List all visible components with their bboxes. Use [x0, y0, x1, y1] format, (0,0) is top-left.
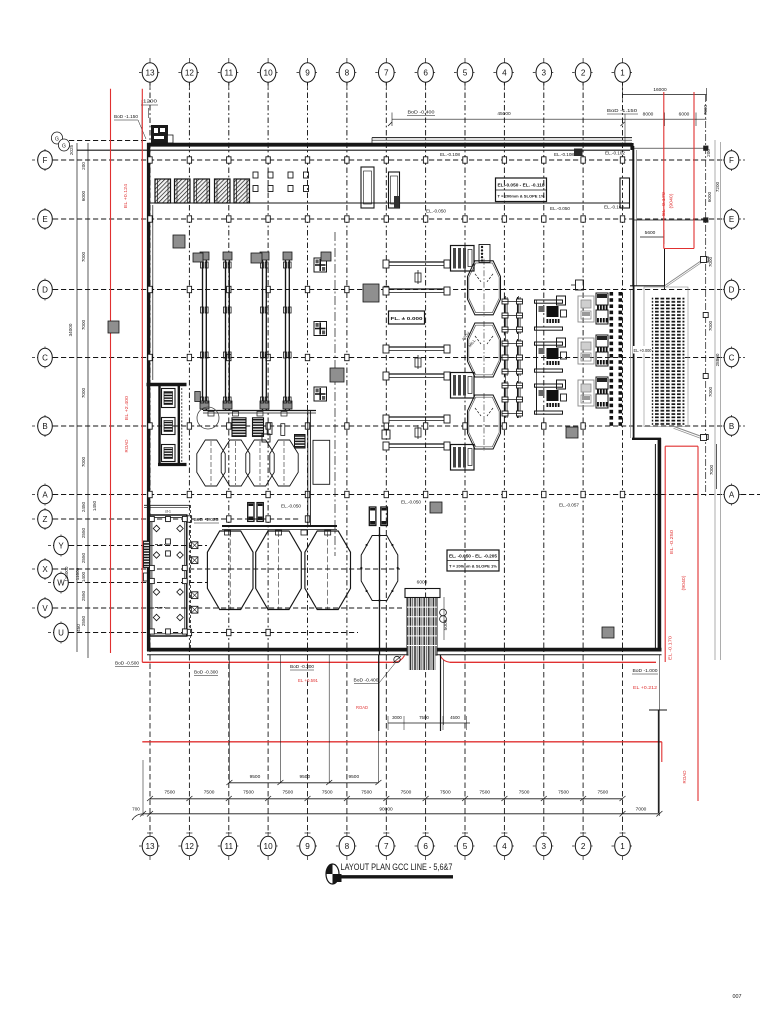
- svg-text:16000: 16000: [653, 87, 667, 93]
- red line top right vertical 1: [663, 92, 665, 249]
- grid bubble W left: [48, 572, 74, 594]
- svg-text:(9040): (9040): [681, 575, 686, 591]
- grid bubble V left: [32, 597, 58, 619]
- svg-text:G: G: [55, 137, 59, 143]
- svg-text:EL -0.250: EL -0.250: [669, 529, 674, 554]
- red line bottom road 1: [142, 656, 656, 663]
- svg-text:st-1: st-1: [165, 510, 171, 514]
- EL texts row A area: [281, 500, 580, 509]
- svg-text:EL.-0.108: EL.-0.108: [440, 152, 461, 157]
- svg-text:6000: 6000: [679, 112, 690, 118]
- top dimension 16000: [623, 87, 707, 101]
- svg-text:EL.-0.050: EL.-0.050: [401, 500, 422, 505]
- svg-text:A: A: [42, 490, 48, 499]
- grid column line 12: [186, 80, 192, 833]
- horizontal rail bands left of mills: [383, 260, 450, 450]
- svg-text:EL +2.400: EL +2.400: [124, 395, 129, 420]
- title text: [341, 861, 453, 872]
- grid column line 10: [265, 80, 271, 833]
- svg-text:V: V: [42, 604, 48, 613]
- svg-text:13: 13: [145, 68, 155, 77]
- svg-text:7000: 7000: [81, 387, 86, 398]
- grid bubble E right: [718, 208, 745, 230]
- svg-text:7500: 7500: [243, 790, 254, 796]
- red line top right horizontal: [664, 248, 694, 250]
- red line right vertical outer: [697, 446, 699, 801]
- grid bubble 9 bottom: [297, 832, 319, 860]
- red text EL -0.170 right top: [661, 191, 674, 216]
- left dimension line outer: [76, 143, 78, 652]
- svg-text:7500: 7500: [519, 790, 530, 796]
- grid column line 8: [344, 80, 350, 833]
- svg-text:7000: 7000: [708, 256, 713, 267]
- light machine unit row 2: [578, 335, 608, 366]
- svg-text:6: 6: [423, 68, 428, 77]
- grid column line 3: [541, 80, 547, 833]
- svg-text:007: 007: [733, 994, 742, 1000]
- grid bubble C right: [718, 347, 745, 369]
- page number 007: [733, 994, 742, 1000]
- ramp dimension 5000: [443, 597, 449, 640]
- note BoD -0.400 bottom right: [354, 662, 397, 684]
- building right wall lower: [655, 438, 659, 651]
- grid row line U: [53, 632, 358, 634]
- svg-text:BoD -0.300: BoD -0.300: [290, 664, 315, 669]
- bottom dimension row 7500: [147, 790, 626, 802]
- svg-text:EL.-0.102: EL.-0.102: [605, 151, 626, 156]
- svg-text:8000: 8000: [643, 112, 654, 118]
- svg-text:9500: 9500: [250, 774, 261, 780]
- svg-text:4500: 4500: [450, 715, 460, 720]
- grid junction boxes: [148, 157, 625, 636]
- svg-text:1: 1: [620, 68, 625, 77]
- svg-text:BoD -1.150: BoD -1.150: [114, 114, 138, 119]
- svg-text:7500: 7500: [479, 790, 490, 796]
- grid bubble 2 top: [572, 58, 594, 88]
- grid bubble B right: [718, 415, 745, 437]
- right louver hatch block: [644, 287, 688, 427]
- circle symbol at red line gap: [393, 656, 401, 663]
- svg-text:2: 2: [581, 842, 586, 851]
- narrow dotted rect near hex top: [479, 245, 490, 263]
- svg-text:6000: 6000: [81, 190, 86, 201]
- svg-text:11: 11: [225, 68, 234, 77]
- upper canopy double line right half: [372, 138, 632, 144]
- svg-text:B: B: [42, 422, 47, 431]
- svg-text:B: B: [729, 422, 734, 431]
- grid bubble 13 top: [139, 58, 161, 88]
- grid bubble X left: [32, 558, 58, 580]
- svg-text:2: 2: [581, 68, 586, 77]
- grid bubble Y left: [48, 535, 74, 557]
- bottom-left room: [144, 505, 198, 648]
- grid bubble 7 bottom: [375, 832, 397, 860]
- red text EL -0.250 right: [669, 529, 674, 554]
- light machine unit row 3: [578, 377, 608, 408]
- red text ROAD bottom center: [356, 705, 368, 710]
- right wall connector lines to dim column: [633, 148, 706, 220]
- grid bubble D right: [718, 279, 745, 301]
- header beam above silos: [222, 526, 337, 535]
- grid column line 2: [580, 80, 586, 833]
- grid bubble 10 top: [257, 58, 279, 88]
- rail centerline: [334, 232, 336, 556]
- svg-text:9500: 9500: [348, 774, 359, 780]
- grid bubble 5 bottom: [454, 832, 476, 860]
- svg-text:5600: 5600: [645, 230, 656, 236]
- paired pump rects x369: [369, 507, 387, 526]
- red line right vertical inner: [664, 446, 666, 662]
- svg-text:7200: 7200: [715, 181, 720, 192]
- note BoD -1.000 bottom far right: [632, 668, 658, 674]
- grid row line C: [53, 357, 723, 359]
- svg-text:6: 6: [423, 842, 428, 851]
- svg-text:7000: 7000: [703, 104, 708, 115]
- red text EL +0.591 bottom left: [298, 678, 319, 683]
- grid bubble 12 bottom: [178, 832, 200, 860]
- svg-text:7000: 7000: [708, 386, 713, 397]
- svg-text:F: F: [729, 156, 734, 165]
- grid bubble 4 top: [493, 58, 515, 88]
- svg-text:EL +0.212: EL +0.212: [633, 685, 658, 690]
- grid bubble 3 top: [533, 58, 555, 88]
- svg-text:7500: 7500: [419, 715, 429, 720]
- svg-text:34000: 34000: [68, 323, 73, 336]
- svg-text:EL.-0.050 - EL. -0.118: EL.-0.050 - EL. -0.118: [498, 183, 546, 188]
- mill feed units: [451, 246, 475, 471]
- red text EL +0.212 bottom right: [633, 685, 658, 690]
- grid bubble A right: [718, 484, 745, 506]
- svg-text:7: 7: [384, 68, 389, 77]
- clamp unit row 1: [502, 297, 523, 334]
- svg-text:U: U: [58, 628, 64, 637]
- grid row line Y: [53, 545, 207, 547]
- svg-text:1: 1: [620, 842, 625, 851]
- building left wall: [149, 143, 153, 651]
- svg-text:EL +0.124: EL +0.124: [123, 183, 128, 208]
- AHU units row: [155, 179, 250, 203]
- light machine unit row 1: [578, 293, 608, 324]
- red text EL +0.124 left top: [123, 183, 128, 208]
- svg-text:A: A: [729, 490, 735, 499]
- EL texts row E: [426, 205, 625, 214]
- svg-text:EL.-0.108: EL.-0.108: [554, 152, 575, 157]
- gray equipment pads: [108, 235, 614, 638]
- red text ROAD left: [124, 439, 129, 453]
- machine unit row 1: [535, 296, 567, 330]
- left equipment box with cells: [147, 385, 187, 465]
- ramp hatched: [405, 589, 440, 671]
- clamp unit row 3: [502, 381, 523, 418]
- small circle vessel right of box: [197, 407, 219, 429]
- small tee symbols on row D: [262, 280, 584, 442]
- grid bubble 10 bottom: [257, 832, 279, 860]
- svg-text:G: G: [62, 144, 66, 150]
- svg-text:7500: 7500: [597, 790, 608, 796]
- svg-text:C: C: [729, 353, 735, 362]
- red line top right vertical 2: [693, 92, 695, 249]
- grid bubble 2 bottom: [572, 832, 594, 860]
- diagonal bracket lower right: [674, 427, 707, 441]
- note BoD -0.500 bottom left: [115, 661, 140, 667]
- building right step at row B: [632, 438, 661, 440]
- small octagon tank row: [197, 412, 330, 487]
- red line right middle horizontal: [665, 445, 698, 447]
- svg-text:EL.-0.050: EL.-0.050: [550, 206, 571, 211]
- svg-text:T = 200mm & SLOPE 1%: T = 200mm & SLOPE 1%: [449, 564, 497, 569]
- svg-text:5: 5: [463, 842, 468, 851]
- svg-text:13: 13: [145, 842, 155, 851]
- grid bubble 11 top: [218, 58, 240, 88]
- grid bubble 1 bottom: [612, 832, 634, 860]
- ramp side walls below building: [379, 655, 444, 731]
- svg-text:BoD -0.300: BoD -0.300: [194, 670, 219, 675]
- svg-text:7500: 7500: [164, 790, 175, 796]
- grid bubble 8 bottom: [336, 832, 358, 860]
- filter boxes below rails: [232, 411, 310, 526]
- grid row line F: [53, 159, 723, 161]
- svg-text:BoD -1.025: BoD -1.025: [194, 517, 220, 522]
- svg-text:BoD -0.400: BoD -0.400: [408, 110, 436, 115]
- grid bubble F left: [32, 149, 58, 171]
- building top wall: [77, 145, 632, 151]
- grid row line W: [53, 582, 207, 584]
- svg-text:7000: 7000: [708, 320, 713, 331]
- svg-text:EL.-0.162: EL.-0.162: [604, 205, 625, 210]
- svg-text:7500: 7500: [558, 790, 569, 796]
- grid bubble 5 top: [454, 58, 476, 88]
- svg-text:(9040): (9040): [669, 193, 674, 209]
- grid column line 1: [620, 80, 626, 833]
- svg-text:F: F: [43, 156, 48, 165]
- svg-text:ROAD: ROAD: [356, 705, 368, 710]
- grid row line A: [53, 494, 760, 496]
- svg-text:EL -0.170: EL -0.170: [661, 191, 666, 216]
- svg-text:X: X: [42, 565, 48, 574]
- svg-text:ROAD: ROAD: [682, 770, 687, 784]
- svg-text:7500: 7500: [440, 790, 451, 796]
- tall cabinet right wall: [620, 178, 630, 208]
- grid column line 7: [383, 80, 389, 833]
- svg-text:11600: 11600: [75, 567, 80, 580]
- grid bubble B left: [32, 415, 58, 437]
- svg-text:4: 4: [502, 68, 507, 77]
- svg-text:12: 12: [185, 842, 195, 851]
- svg-text:7000: 7000: [81, 319, 86, 330]
- svg-text:90000: 90000: [379, 807, 393, 813]
- svg-text:D: D: [42, 285, 48, 294]
- dot strips right of machines: [610, 292, 623, 426]
- right 5600 dimension: [640, 230, 664, 244]
- grid row line X: [53, 568, 400, 570]
- svg-text:3: 3: [542, 68, 547, 77]
- svg-text:2550: 2550: [81, 552, 86, 563]
- svg-text:7: 7: [384, 842, 389, 851]
- title underline: [338, 875, 453, 878]
- grid row line G short: [53, 140, 147, 142]
- svg-text:2450: 2450: [81, 501, 86, 512]
- road centerline tick bottom right: [649, 710, 667, 813]
- small auxiliary bubbles top-left (G): [51, 132, 69, 151]
- grid column line 4: [501, 80, 507, 833]
- big silo octagons: [207, 531, 350, 610]
- grid bubble F right: [718, 149, 745, 171]
- top dimension 45000 8000 6000 line: [388, 111, 707, 126]
- cross box 2: [314, 322, 327, 336]
- grid bubble 6 top: [415, 58, 437, 88]
- double circle symbol below ramp: [440, 609, 447, 622]
- red line bottom road 2: [142, 742, 662, 762]
- left dimension line inner: [87, 143, 89, 658]
- clamp unit row 2: [502, 339, 523, 376]
- bottom sub-dimension 3000 7500 4500: [388, 715, 470, 730]
- grid bubble 6 bottom: [415, 832, 437, 860]
- grid row line B: [53, 425, 723, 427]
- machine unit row 3: [535, 380, 567, 414]
- cross box 1: [314, 258, 327, 272]
- vertical rails block: [200, 252, 316, 413]
- hexagon mill vessels: [461, 259, 501, 451]
- svg-text:1450: 1450: [92, 500, 97, 511]
- right dimension line and texts: [703, 95, 721, 660]
- note BoD -1.025: [194, 517, 220, 523]
- svg-text:FL. ± 0.000: FL. ± 0.000: [391, 316, 424, 321]
- grid bubble 1 top: [612, 58, 634, 88]
- tall cabinet x361: [361, 167, 374, 208]
- svg-text:11: 11: [225, 842, 234, 851]
- svg-text:7500: 7500: [401, 790, 412, 796]
- svg-text:2550: 2550: [81, 615, 86, 626]
- ramp dimension 6000: [417, 580, 428, 586]
- red text ROAD right lower: [682, 770, 687, 784]
- building bottom wall: [147, 650, 662, 655]
- small box on top wall x574: [574, 149, 583, 157]
- svg-text:6000: 6000: [417, 580, 428, 586]
- svg-text:Y: Y: [58, 541, 64, 550]
- grid row line E: [53, 218, 723, 220]
- svg-text:7500: 7500: [322, 790, 333, 796]
- svg-text:D: D: [729, 285, 735, 294]
- grid bubble 4 bottom: [493, 832, 515, 860]
- svg-text:200: 200: [81, 162, 86, 170]
- top-left dimension 1200: [141, 99, 158, 144]
- grid bubble 11 bottom: [218, 832, 240, 860]
- svg-text:2550: 2550: [81, 590, 86, 601]
- svg-text:EL.-0.050: EL.-0.050: [281, 504, 302, 509]
- bottom dimension row overall: [132, 655, 662, 820]
- diagonal bracket upper right: [665, 257, 707, 288]
- grid column line 9: [305, 80, 311, 833]
- grid column line 13: [147, 80, 153, 833]
- note BoD -0.300 bottom: [194, 670, 219, 676]
- cross box 3: [314, 387, 327, 401]
- boxed label FL 0.000: [389, 311, 425, 324]
- title section symbol: [326, 864, 342, 884]
- svg-text:7000: 7000: [636, 807, 647, 813]
- building canopy line: [147, 202, 630, 204]
- grid bubble 12 top: [178, 58, 200, 88]
- svg-text:7500: 7500: [204, 790, 215, 796]
- svg-text:EL.-0.050: EL.-0.050: [426, 209, 447, 214]
- grid bubble D left: [32, 279, 58, 301]
- separate octagon tank right of silos: [360, 527, 399, 655]
- svg-text:BoD -1.150: BoD -1.150: [607, 108, 638, 113]
- boxed label EL-0.050 EL-0.205 lower: [447, 550, 499, 571]
- grid bubble E left: [32, 208, 58, 230]
- label EL+0.000 on right wall: [633, 346, 652, 354]
- machine zone vertical rails: [506, 296, 537, 418]
- grid row line D: [53, 289, 723, 291]
- svg-text:700: 700: [132, 807, 140, 812]
- grid column line 6: [423, 80, 429, 833]
- svg-text:7500: 7500: [361, 790, 372, 796]
- svg-text:9: 9: [305, 68, 310, 77]
- svg-text:8: 8: [345, 842, 350, 851]
- bottom dimension row 9500: [226, 655, 381, 785]
- grid bubble Z left: [32, 508, 58, 530]
- svg-text:10: 10: [264, 68, 274, 77]
- grid column line 11: [226, 80, 232, 833]
- svg-text:8: 8: [345, 68, 350, 77]
- svg-text:7500: 7500: [282, 790, 293, 796]
- svg-text:BoD -1.000: BoD -1.000: [633, 668, 659, 673]
- note BoD -0.300 bottom 2: [290, 664, 315, 670]
- bottom right dimension 7000 vertical: [709, 444, 717, 489]
- svg-text:T = 200mm & SLOPE 1%: T = 200mm & SLOPE 1%: [498, 194, 545, 199]
- svg-text:3: 3: [542, 842, 547, 851]
- svg-text:3000: 3000: [392, 715, 402, 720]
- svg-text:7000: 7000: [709, 464, 714, 475]
- svg-text:1400: 1400: [81, 571, 86, 582]
- svg-text:450: 450: [76, 624, 81, 632]
- grid row line Z: [53, 518, 300, 520]
- svg-text:115000: 115000: [64, 566, 69, 581]
- grid bubble 3 bottom: [533, 832, 555, 860]
- svg-text:LAYOUT PLAN GCC LINE - 5,6&7: LAYOUT PLAN GCC LINE - 5,6&7: [341, 861, 453, 872]
- small square pairs right of AHUs: [253, 172, 309, 192]
- svg-text:1200: 1200: [143, 99, 158, 104]
- svg-text:EL +0.591: EL +0.591: [298, 678, 319, 683]
- svg-text:E: E: [729, 215, 734, 224]
- building right wall arm at row D: [630, 249, 665, 290]
- red line vertical left inner: [141, 89, 143, 663]
- red line vertical left outer: [110, 89, 112, 653]
- svg-text:Z: Z: [43, 515, 48, 524]
- grid column line 5: [462, 80, 468, 833]
- svg-text:C: C: [42, 353, 48, 362]
- grid row line V: [53, 607, 402, 609]
- top note BoD -1.150: [607, 108, 638, 143]
- svg-text:EL -0.170: EL -0.170: [668, 635, 673, 660]
- svg-text:E: E: [42, 215, 47, 224]
- svg-text:2025: 2025: [69, 144, 74, 155]
- svg-text:6000: 6000: [707, 191, 712, 202]
- grid bubble 7 top: [375, 58, 397, 88]
- svg-text:EL.+0.000: EL.+0.000: [634, 348, 653, 353]
- grid bubble 9 top: [297, 58, 319, 88]
- top note BoD -0.400: [407, 110, 435, 116]
- svg-text:ROAD: ROAD: [124, 439, 129, 453]
- tall cabinet x388: [389, 172, 400, 208]
- svg-text:10: 10: [264, 842, 274, 851]
- svg-text:EL. -0.050 - EL. -0.205: EL. -0.050 - EL. -0.205: [449, 554, 498, 559]
- machine unit row 2: [535, 338, 567, 372]
- left dimension texts: [64, 144, 97, 631]
- grid bubble U left: [48, 622, 74, 644]
- svg-text:2550: 2550: [81, 527, 86, 538]
- building right wall middle: [631, 285, 634, 439]
- svg-text:7000: 7000: [81, 251, 86, 262]
